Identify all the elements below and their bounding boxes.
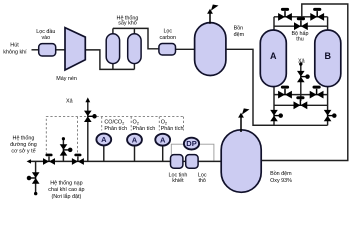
- svg-text:B: B: [325, 51, 332, 61]
- svg-text:DP: DP: [186, 139, 196, 148]
- svg-text:Lọc: Lọc: [163, 28, 172, 34]
- svg-text:Phân tích: Phân tích: [161, 126, 184, 132]
- svg-text:vào: vào: [41, 35, 50, 41]
- svg-text:carbon: carbon: [160, 35, 176, 41]
- svg-text:chai khí cao áp: chai khí cao áp: [48, 187, 84, 193]
- svg-text:Bồn: Bồn: [234, 26, 244, 32]
- svg-text:A: A: [101, 135, 107, 144]
- svg-text:Phân tích: Phân tích: [133, 126, 156, 132]
- svg-text:A: A: [132, 135, 138, 144]
- svg-text:Xả: Xả: [298, 59, 305, 65]
- svg-text:cơ sở y tế: cơ sở y tế: [11, 148, 35, 155]
- svg-text:Xả: Xả: [66, 99, 73, 105]
- svg-text:đệm: đệm: [234, 32, 245, 38]
- svg-text:đường ống: đường ống: [10, 142, 37, 148]
- svg-text:Hệ thống nạp: Hệ thống nạp: [50, 181, 82, 187]
- svg-text:Oxy 93%: Oxy 93%: [270, 178, 292, 184]
- svg-text:thu: thu: [296, 37, 304, 43]
- svg-text:CO/CO2: CO/CO2: [104, 120, 125, 126]
- svg-text:Phân tích: Phân tích: [104, 126, 127, 132]
- svg-text:Hệ thống: Hệ thống: [13, 136, 35, 142]
- svg-text:khiết: khiết: [172, 178, 184, 184]
- svg-text:Bồn đệm: Bồn đệm: [270, 171, 292, 177]
- svg-text:không khí: không khí: [3, 50, 27, 56]
- svg-text:Máy nén: Máy nén: [56, 76, 77, 82]
- svg-text:(Nơi lắp đặt): (Nơi lắp đặt): [51, 193, 81, 200]
- svg-text:sấy khô: sấy khô: [118, 21, 137, 27]
- svg-text:Hút: Hút: [10, 43, 19, 49]
- svg-text:A: A: [160, 135, 166, 144]
- svg-text:A: A: [270, 51, 277, 61]
- svg-text:O2: O2: [133, 120, 140, 126]
- svg-text:O2: O2: [161, 120, 168, 126]
- svg-text:thô: thô: [198, 178, 206, 184]
